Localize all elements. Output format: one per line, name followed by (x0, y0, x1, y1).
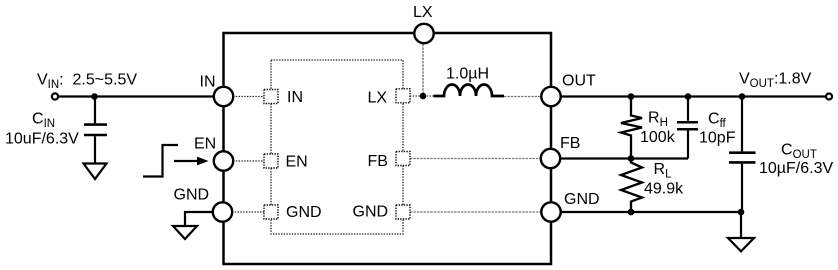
svg-text:EN: EN (194, 136, 216, 153)
capacitor CIN (84, 125, 107, 135)
svg-text:GND: GND (174, 187, 210, 204)
svg-text:100k: 100k (640, 129, 676, 146)
resistor RH 100k (621, 97, 642, 159)
node RL-GND junction (628, 209, 635, 216)
svg-text:IN: IN (200, 74, 216, 91)
wire COUT junction down to ground (740, 212, 742, 238)
output terminal (826, 94, 832, 100)
EN step waveform symbol (143, 145, 178, 177)
capacitor Cff 10pF (687, 97, 689, 121)
ground at output (728, 238, 754, 251)
svg-text:49.9k: 49.9k (644, 181, 684, 198)
node OUT-RH junction (628, 93, 635, 100)
pin square die GND left (264, 205, 278, 219)
node OUT-COUT junction (739, 93, 746, 100)
svg-text:GND: GND (564, 191, 600, 208)
wire GND pin to ground (185, 212, 213, 226)
pin EN circle (214, 151, 233, 170)
pin OUT circle (541, 87, 560, 106)
wire dotted GND pin to die (232, 211, 264, 213)
pin square die LX (396, 89, 410, 103)
wire CIN top lead (94, 97, 96, 124)
node OUT-Cff junction (685, 93, 692, 100)
wire dotted GND right pin to die (410, 211, 541, 213)
svg-text:LX: LX (368, 89, 388, 106)
ground at left GND pin (173, 226, 197, 239)
svg-text:10µF/6.3V: 10µF/6.3V (759, 160, 833, 177)
resistor RL 49.9k (621, 159, 642, 213)
wire dotted FB pin to die (410, 158, 541, 160)
svg-text:GND: GND (286, 204, 322, 221)
wire dotted LX pin down to LX net (422, 44, 424, 93)
EN arrow (174, 160, 199, 162)
wire inductor to OUT pin (504, 96, 541, 98)
svg-text:COUT: COUT (781, 142, 817, 162)
node COUT-GND junction (738, 209, 745, 216)
svg-text:FB: FB (368, 153, 388, 170)
svg-text:CIN: CIN (32, 111, 55, 131)
wire CIN bottom lead (94, 136, 96, 163)
IC outer boundary box U1 (224, 33, 552, 264)
svg-text:OUT: OUT (562, 73, 596, 90)
svg-text:LX: LX (413, 4, 433, 21)
pin LX circle top (414, 24, 433, 43)
IC inner dotted die box (271, 60, 403, 234)
svg-text:Cff: Cff (708, 111, 727, 131)
svg-text:RL: RL (654, 161, 673, 181)
pin GND circle right (541, 202, 560, 221)
wire dotted EN pin to die (233, 160, 264, 162)
node VIN junction (91, 93, 98, 100)
svg-text:RH: RH (648, 110, 668, 130)
input terminal (52, 93, 58, 99)
wire GND net right (561, 211, 741, 213)
wire FB net (561, 157, 688, 159)
wire input VIN to IN pin (58, 95, 215, 97)
pin IN circle (214, 87, 233, 106)
svg-text:10uF/6.3V: 10uF/6.3V (5, 131, 79, 148)
wire dotted IN pin to die (233, 96, 264, 98)
svg-text:GND: GND (353, 204, 389, 221)
capacitor COUT 10uF (741, 97, 743, 152)
inductor L1 1.0uH (434, 85, 505, 97)
node LX junction (420, 93, 427, 100)
pin GND circle left (213, 202, 232, 221)
svg-text:EN: EN (286, 154, 308, 171)
ground below CIN (84, 164, 107, 180)
pin square die GND right (396, 205, 410, 219)
svg-text:IN: IN (287, 89, 303, 106)
wire OUT to VOUT terminal (561, 95, 826, 97)
svg-text:VOUT:1.8V: VOUT:1.8V (739, 71, 812, 91)
svg-text:10pF: 10pF (699, 130, 736, 147)
pin square die EN (264, 154, 278, 168)
pin FB circle (541, 149, 560, 168)
node FB junction (628, 155, 635, 162)
pin square die FB (396, 152, 410, 166)
svg-text:FB: FB (560, 135, 580, 152)
wire dotted die LX to junction (410, 95, 434, 97)
pin square die IN (264, 90, 278, 104)
svg-text:1.0µH: 1.0µH (446, 66, 489, 83)
svg-text:VIN: 2.5~5.5V: VIN: 2.5~5.5V (37, 72, 137, 92)
